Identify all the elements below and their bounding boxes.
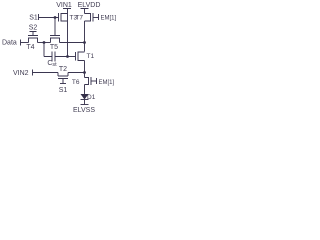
svg-text:T5: T5 [50,44,58,51]
svg-text:ELVSS: ELVSS [73,107,95,114]
node EM[1] terminal top [98,14,100,20]
node S1 terminal bottom [60,83,66,85]
wire N2 to T1 gate [68,56,76,58]
transistor T3 [59,13,68,22]
node ELVDD terminal [81,9,89,14]
wire D1 to ELVSS [84,100,86,105]
svg-text:VIN2: VIN2 [13,70,29,77]
wire N1 down to Cst [43,43,45,57]
svg-text:EM[1]: EM[1] [99,80,115,86]
wire T5 to ELVDD rail [60,42,85,44]
transistor T4 [28,36,38,43]
svg-text:EM[1]: EM[1] [101,16,117,22]
wire T4 to T5 [38,42,51,44]
svg-text:D1: D1 [87,94,96,101]
transistor T1 [76,52,85,62]
wire ELVDD rail T7 to T1 [84,21,86,52]
junction N2 [66,55,69,58]
transistor T5 [50,36,60,43]
svg-text:Cst: Cst [47,60,57,68]
junction S1/T5 [54,16,57,19]
transistor T6 [85,77,92,85]
wire T7 gate to EM terminal [93,17,99,19]
svg-text:T6: T6 [72,79,80,86]
capacitor Cst [44,52,68,62]
svg-text:S1: S1 [59,87,68,94]
svg-text:ELVDD: ELVDD [78,2,101,9]
node EM[1] terminal middle [96,78,98,84]
node VIN1 terminal [63,9,71,14]
wire S1 junction down to T5 gate [54,18,56,36]
wire T6 gate to EM terminal [91,80,97,82]
wire T6 to diode D1 [84,85,86,95]
wire T1 source down to node D [84,61,86,73]
svg-text:T4: T4 [26,44,34,51]
transistor T2 [58,73,68,84]
wire T2 to node D [68,72,85,74]
svg-text:T1: T1 [87,53,95,60]
wire Data to T4 [21,42,29,44]
node Data terminal [20,40,22,46]
junction ELVDD rail / T5 output [83,41,86,44]
junction node D [83,71,86,74]
wire VIN2 to T2 [33,72,59,74]
svg-text:S1: S1 [29,15,38,22]
node ELVSS terminal [81,104,89,106]
svg-text:T7: T7 [75,15,83,22]
diode D1 [81,94,89,100]
junction N1 [43,41,46,44]
transistor T7 [85,13,94,22]
svg-text:S2: S2 [29,25,38,32]
wire S1 to T3 gate [39,17,59,19]
svg-text:Data: Data [2,40,17,47]
wire VIN1 rail through T3 down to node N2 [67,14,69,57]
node VIN2 terminal [32,70,34,76]
wire node D to T6 [84,73,86,78]
node S1 terminal [38,14,40,20]
node S2 terminal [30,32,37,36]
svg-text:T2: T2 [59,66,67,73]
svg-text:VIN1: VIN1 [56,2,72,9]
